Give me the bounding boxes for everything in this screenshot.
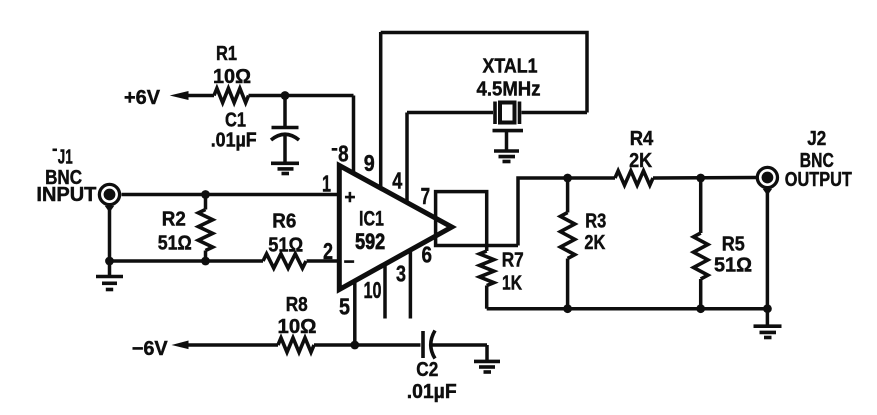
node +6V arrow [170, 91, 214, 100]
svg-text:C1: C1 [225, 110, 246, 132]
svg-text:8: 8 [338, 140, 349, 166]
svg-text:XTAL1: XTAL1 [483, 56, 538, 78]
svg-text:4: 4 [392, 168, 402, 194]
resistor R8 [278, 338, 314, 352]
svg-text:.01µF: .01µF [407, 381, 457, 403]
pin 9 wire [379, 32, 383, 190]
svg-text:7: 7 [421, 183, 431, 209]
connector J2 [757, 167, 777, 195]
svg-text:+: + [344, 188, 355, 209]
label R7 1K [502, 249, 524, 294]
svg-text:−: − [343, 252, 354, 273]
svg-text:R7: R7 [502, 249, 524, 271]
svg-text:2K: 2K [629, 150, 652, 172]
node junction R5 top [696, 174, 705, 183]
svg-text:.01µF: .01µF [211, 130, 257, 152]
svg-text:R8: R8 [286, 294, 308, 316]
svg-text:IC1: IC1 [359, 208, 384, 231]
svg-text:R2: R2 [162, 208, 186, 230]
svg-text:1K: 1K [502, 273, 522, 295]
svg-text:+6V: +6V [124, 87, 161, 109]
resistor R3 [560, 178, 574, 309]
label R6 51ohm [268, 210, 303, 256]
svg-text:3: 3 [396, 260, 406, 286]
capacitor C2 [423, 331, 487, 359]
label J1 BNC INPUT [36, 147, 96, 206]
wire output top rail [568, 176, 615, 180]
ground J1 [96, 277, 123, 290]
wire J1 to pin 1 [122, 193, 342, 197]
svg-text:51Ω: 51Ω [714, 255, 752, 277]
pin 8 label [332, 148, 338, 151]
pin 5 wire [353, 281, 357, 345]
svg-text:J1: J1 [58, 147, 73, 169]
svg-text:C2: C2 [416, 359, 438, 381]
ground J2 [754, 326, 782, 337]
svg-text:10Ω: 10Ω [213, 66, 251, 88]
node -6V arrow [172, 341, 279, 350]
svg-text:INPUT: INPUT [36, 184, 96, 206]
node junction R3 bottom [563, 304, 572, 313]
resistor R2 [198, 195, 212, 262]
node junction J1 bottom [105, 257, 114, 266]
resistor R5 [694, 178, 708, 309]
capacitor C1 [271, 96, 299, 164]
label R3 2K [584, 210, 606, 254]
svg-text:OUTPUT: OUTPUT [785, 169, 852, 191]
node junction R2 bottom [201, 257, 210, 266]
label XTAL1 4.5MHz [477, 56, 541, 101]
wire lower input rail [110, 259, 264, 263]
pin 3 wire [409, 250, 413, 319]
resistor R4 [615, 171, 653, 185]
node junction R3 top [563, 174, 572, 183]
svg-text:R6: R6 [272, 210, 296, 232]
label R8 10ohm [278, 294, 317, 338]
resistor R7 [480, 246, 494, 309]
label R2 51ohm [158, 208, 192, 254]
svg-text:51Ω: 51Ω [158, 233, 192, 255]
wire -6V rail to C2 [314, 343, 421, 347]
wire J2 stem [766, 189, 770, 326]
wire C2 to ground [485, 345, 489, 361]
node junction R2 top [201, 190, 210, 199]
svg-text:−6V: −6V [132, 338, 169, 360]
svg-text:R4: R4 [630, 128, 654, 150]
svg-text:2K: 2K [584, 232, 605, 254]
svg-text:51Ω: 51Ω [268, 235, 303, 257]
connector J1 [99, 184, 119, 212]
label R4 2K [629, 128, 654, 172]
label R5 51ohm [714, 234, 752, 277]
node junction C1 [281, 91, 290, 100]
svg-text:9: 9 [364, 150, 375, 176]
svg-text:4.5MHz: 4.5MHz [477, 79, 541, 101]
pin 10 wire [383, 263, 387, 319]
svg-text:10: 10 [364, 277, 382, 303]
label C1 .01uF [211, 110, 257, 152]
op-amp IC1 triangle [339, 166, 452, 290]
svg-text:5: 5 [339, 294, 350, 320]
node junction J2 bottom [763, 304, 772, 313]
svg-text:R5: R5 [722, 234, 745, 256]
wire J1 ground stem [108, 206, 112, 276]
svg-text:10Ω: 10Ω [278, 316, 317, 338]
node junction pin 5 [350, 341, 359, 350]
svg-text:592: 592 [355, 229, 385, 254]
node junction R5 bottom [696, 304, 705, 313]
resistor R1 [214, 88, 249, 102]
svg-text:R1: R1 [216, 43, 237, 65]
ground XTAL1 [493, 131, 524, 162]
svg-text:R3: R3 [585, 210, 606, 232]
wire bottom output rail [487, 307, 768, 311]
label R1 10ohm [213, 43, 251, 88]
wire R4 to J2 [653, 176, 756, 180]
label C2 .01uF [407, 359, 457, 403]
svg-text:2: 2 [323, 238, 333, 264]
svg-text:1: 1 [322, 170, 331, 196]
ground C1 [271, 163, 299, 173]
wire output loop box [436, 178, 568, 246]
svg-text:J2: J2 [807, 128, 826, 150]
pin 4 wire [405, 113, 409, 204]
svg-text:6: 6 [421, 241, 432, 267]
resistor R6 [263, 254, 342, 268]
wire pin 8 vertical [352, 96, 356, 175]
wire +6V rail to pin 8 [249, 94, 354, 98]
ground C2 [474, 361, 500, 372]
wire top loop [381, 33, 587, 113]
crystal XTAL1 [407, 102, 587, 125]
label J2 BNC OUTPUT [785, 128, 852, 191]
